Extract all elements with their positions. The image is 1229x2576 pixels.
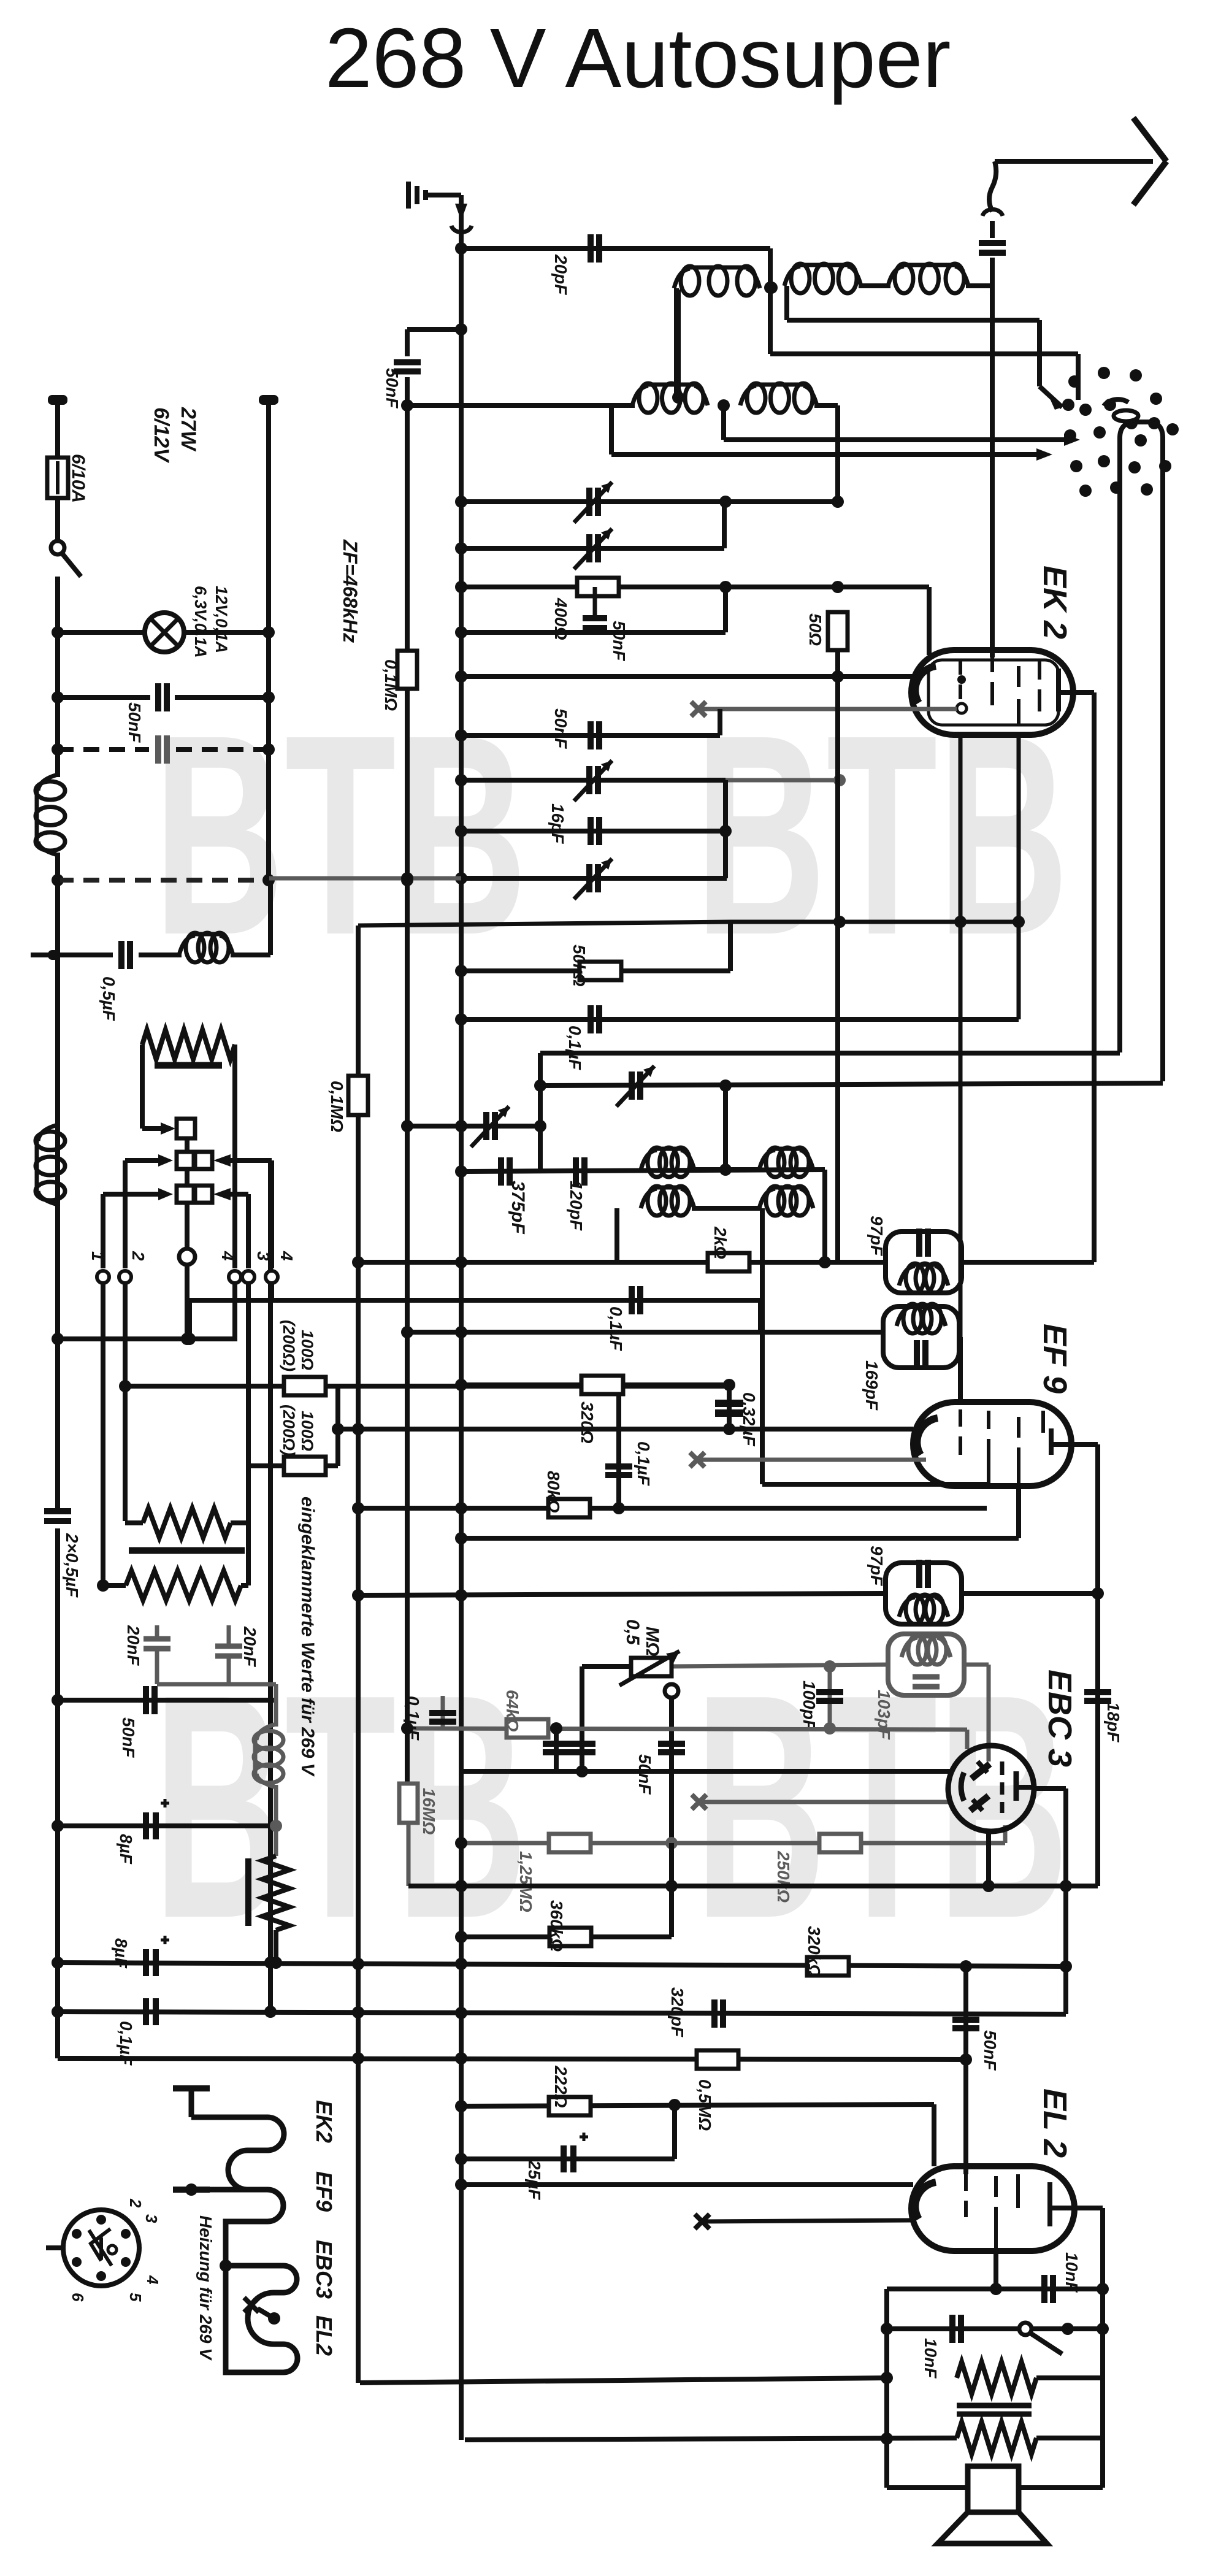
label 0,5MOhm b — [695, 2079, 714, 2131]
watermark BTB stamps — [153, 675, 1069, 1985]
x mark EL2 — [695, 2214, 710, 2229]
battery terminal + — [48, 395, 67, 405]
wire rheo2 right up — [241, 1466, 248, 1585]
x mark EBC3 — [692, 1795, 706, 1809]
arrow into EK2 grid a — [1064, 434, 1080, 446]
rail 3005 (AF grid) — [461, 1841, 1005, 1846]
svg-text:3: 3 — [254, 1251, 273, 1261]
resistor 0,5 MOhm b — [697, 2050, 738, 2069]
label 222 Ohm — [551, 2065, 570, 2108]
junction 3005/752 — [455, 1837, 467, 1849]
capacitor 50nF b — [591, 721, 599, 749]
junction 3520/752 — [455, 2153, 467, 2165]
capacitor 50nF supply — [146, 1686, 155, 1714]
junction 2888/949 — [576, 1765, 588, 1777]
heater filament EBC3 — [226, 2266, 297, 2293]
svg-text:0,1µF: 0,1µF — [607, 1306, 626, 1351]
rail 1662 — [461, 1017, 1019, 1022]
EF9 cathode arc — [917, 1418, 938, 1455]
junction 2601/584 — [352, 1589, 364, 1601]
wire contact4b down — [269, 1283, 274, 1300]
rail 3282 — [58, 2012, 1066, 2014]
svg-text:50nF: 50nF — [981, 2030, 1000, 2071]
wire lamp row right — [183, 630, 269, 635]
switch wafer box 1 — [177, 1119, 195, 1138]
rail 3562 — [461, 2182, 913, 2187]
switch wafer box 3b — [195, 1186, 212, 1203]
svg-text:100Ω: 100Ω — [298, 1411, 316, 1451]
resistor 222 Ohm — [549, 2097, 591, 2115]
heater filament EK2 — [191, 2117, 284, 2150]
antenna coil L4b — [740, 383, 817, 413]
vert 1095 b — [669, 1843, 674, 1937]
junction lineA/1432 — [401, 872, 413, 884]
vert 1798 — [1100, 2208, 1105, 2438]
junction 2818/1353 — [824, 1722, 836, 1735]
socket pin 2 — [126, 2198, 145, 2208]
rheostat down — [274, 1930, 278, 1963]
label 6,3V 0,1A — [191, 586, 210, 658]
wire wafer3 vert — [101, 1194, 105, 1268]
slider plate bar — [129, 1547, 245, 1554]
rail 1272 gray — [726, 778, 840, 783]
junction dashed row right — [262, 743, 275, 756]
EK2 cathode arc — [915, 666, 936, 703]
rail 1770 — [540, 1083, 1163, 1086]
rail 3732 — [887, 2287, 1103, 2291]
stub 20nF a up — [155, 1625, 159, 1639]
junction 1503/1372 — [833, 916, 846, 928]
vert 1183 c — [723, 1086, 728, 1171]
choke L2 (antenna filter) — [179, 933, 233, 962]
junction 3282/587 — [352, 2006, 364, 2018]
junction 3356/752 — [455, 2052, 467, 2064]
junction AVC at battery wire — [262, 874, 275, 886]
label 0,1uF d — [404, 1696, 423, 1741]
junction lamp row left — [52, 626, 64, 638]
antenna jack arc — [451, 226, 472, 232]
junction 1770 left — [534, 1079, 546, 1092]
EK2 inner electrodes — [957, 657, 1072, 725]
capacitor 16pF — [591, 817, 599, 845]
drum rheostat 2 — [126, 1571, 241, 1600]
capacitor 50nF (osc) — [583, 587, 607, 632]
svg-text:0,1MΩ: 0,1MΩ — [381, 659, 400, 711]
heater bus terminal 1 — [173, 2088, 210, 2117]
wire spine bottom — [55, 1528, 60, 2058]
junction 2058/1345 — [819, 1256, 831, 1268]
junction 3204/752 — [455, 1958, 467, 1970]
svg-text:120pF: 120pF — [567, 1181, 586, 1231]
rail 3520 — [461, 2156, 675, 2161]
EF9 anode lead right — [1071, 1442, 1098, 1447]
resistor 50 Ohm — [828, 612, 848, 650]
rail 1272 — [461, 778, 726, 783]
label 8uF a — [117, 1834, 136, 1865]
svg-text:4: 4 — [277, 1251, 296, 1261]
coil T4 — [902, 1635, 951, 1665]
loudspeaker — [938, 2466, 1047, 2543]
antenna lead stub — [990, 221, 995, 238]
svg-text:50Ω: 50Ω — [806, 613, 825, 646]
terminal (chassis tap) — [31, 950, 59, 960]
EK2 cathode oval mark — [1114, 410, 1138, 421]
label 0,32uF — [740, 1392, 759, 1447]
label contact 3 — [254, 1251, 273, 1261]
heater link stub — [258, 2309, 274, 2318]
coupling 50nF vert — [963, 1966, 968, 2058]
capacitor 0,1uF d — [429, 1713, 456, 1722]
svg-text:4: 4 — [144, 2275, 162, 2285]
svg-text:375pF: 375pF — [508, 1181, 528, 1234]
svg-text:2: 2 — [129, 1251, 148, 1261]
junction 957/1183 — [719, 581, 732, 593]
wire 383 up — [232, 1300, 237, 1339]
wire battery - lead — [266, 405, 271, 880]
svg-text:EBC 3: EBC 3 — [1041, 1669, 1078, 1767]
rail 3877 right — [1036, 2375, 1103, 2380]
junction 3075/1612 — [982, 1880, 995, 1892]
label 97pF T3 — [867, 1546, 886, 1586]
EL2 anode bottom lead — [994, 2250, 998, 2289]
rail 519 end corner — [1037, 320, 1042, 386]
EK2 osc anode stub — [1076, 396, 1081, 400]
EL2 grid into tube — [963, 2058, 968, 2174]
label 10nF b — [921, 2338, 940, 2379]
wire L6a left down — [784, 286, 789, 320]
antenna coil L4a — [632, 383, 708, 413]
wire 309 corner — [187, 1300, 192, 1339]
label 50nF osc — [610, 621, 629, 661]
junction 1031 left — [455, 626, 467, 638]
socket pin 5 — [126, 2293, 145, 2302]
arrow into wafer 2 — [158, 1154, 173, 1167]
EK2 anode vertical — [1092, 692, 1097, 1262]
label 100 Ohm upper — [298, 1330, 316, 1370]
junction 2258/1189 — [723, 1379, 735, 1391]
wire 1180 down — [721, 405, 726, 440]
svg-text:(200Ω): (200Ω) — [280, 1320, 298, 1371]
svg-text:320pF: 320pF — [668, 1987, 687, 2037]
junction coil tap — [672, 391, 684, 404]
label MOhm pot — [642, 1627, 662, 1656]
capacitor 0,1uF e — [146, 1998, 156, 2025]
resistor 100 Ohm (200 Ohm) upper — [284, 1377, 326, 1395]
X line to EL2 — [702, 2220, 911, 2221]
label 50nF b — [551, 708, 570, 749]
switch contact 1 — [97, 1271, 109, 1283]
wire spine mid — [55, 697, 60, 777]
capacitor 20nF b — [215, 1646, 242, 1684]
line A upper — [405, 377, 410, 652]
svg-text:103pF: 103pF — [875, 1690, 894, 1740]
junction 1662 left — [455, 1013, 467, 1025]
antenna horizontal — [995, 159, 1153, 164]
svg-text:320Ω: 320Ω — [578, 1401, 597, 1444]
capacitor 50nF e — [658, 1744, 685, 1752]
label 0,1uF b — [607, 1306, 626, 1351]
vert 1189 seg — [727, 1385, 732, 1429]
label 320pF — [668, 1987, 687, 2037]
capacitor 375pF — [501, 1157, 510, 1186]
wiper down — [669, 1698, 674, 1843]
label EF9 (heater) — [312, 2171, 337, 2212]
dropping rheostat — [262, 1856, 289, 1930]
rail 661 (input tuned) — [407, 403, 635, 408]
svg-text:BTB: BTB — [695, 675, 1069, 994]
junction rail2183 left — [52, 1333, 64, 1345]
wire tap up — [676, 289, 681, 397]
socket pin 3 — [142, 2214, 161, 2223]
junction 309/2183 — [183, 1333, 196, 1345]
label 50kOhm — [570, 945, 589, 987]
resistor 80 kOhm — [548, 1499, 590, 1517]
junction 3282/441 — [264, 2006, 277, 2018]
output transformer primary — [957, 2362, 1036, 2394]
line A mid — [405, 689, 410, 1728]
capacitor 2x0,5uF — [44, 1511, 71, 1521]
wire spine lower — [55, 955, 60, 1510]
wire upper 100ohm right — [326, 1384, 338, 1389]
tube EL2 envelope — [911, 2166, 1074, 2251]
svg-text:169pF: 169pF — [862, 1360, 881, 1411]
switch contact 4 — [266, 1271, 278, 1283]
wire dashed row left — [58, 747, 149, 752]
wire wafer3 feed — [103, 1192, 158, 1197]
capacitor 8uF a — [146, 1799, 169, 1839]
fuse wire through — [56, 461, 59, 494]
speaker right wire — [1019, 2485, 1103, 2490]
label contact 1 — [88, 1251, 107, 1261]
junction 3075/752 — [455, 1880, 467, 1892]
rheostat 1 left lead — [125, 1520, 143, 1525]
wire 881 down — [538, 1053, 543, 1171]
wire L8 left down — [614, 1208, 619, 1262]
junction 3282/752 — [455, 2007, 467, 2019]
junction 3797/1446 — [881, 2323, 893, 2335]
label 27W — [177, 407, 200, 452]
capacitor 10nF b — [952, 2315, 961, 2343]
junction 2977/450 — [270, 1820, 282, 1832]
rail 2977 — [58, 1823, 276, 1828]
trimmer C4 (gang) — [574, 859, 612, 899]
title 268 V Autosuper — [325, 11, 951, 105]
svg-text:20pF: 20pF — [551, 254, 570, 295]
rail 1717 — [540, 1051, 1120, 1056]
arrowhead antenna jack — [455, 204, 467, 221]
arrow into EK2 grid b — [1036, 448, 1052, 461]
line A lower — [405, 1728, 410, 1784]
oscillator coil L7b — [759, 1148, 813, 1177]
stub 907 down — [554, 1728, 559, 1771]
switch pivot circle — [179, 1249, 195, 1265]
wire 50ohm down — [835, 650, 840, 677]
svg-text:50kΩ: 50kΩ — [570, 945, 589, 987]
wire L8 mid link — [692, 1206, 762, 1211]
svg-text:80kΩ: 80kΩ — [544, 1471, 563, 1513]
wire L7 mid link — [692, 1167, 762, 1172]
svg-text:2kΩ: 2kΩ — [711, 1226, 730, 1259]
switch S1 (power) — [51, 541, 81, 577]
heater filament EL2 — [226, 2266, 297, 2372]
junction 50nF supply row — [52, 1694, 64, 1706]
capacitor 18pF — [1084, 1692, 1111, 1701]
junction 1272/1369 — [833, 774, 846, 786]
rail 20pF (405) — [461, 246, 770, 251]
svg-text:Heizung für 269 V: Heizung für 269 V — [196, 2215, 215, 2361]
wire 1183 vert — [723, 587, 728, 632]
arrow into wafer 1 — [161, 1122, 175, 1135]
rail 3877 left — [360, 2378, 887, 2383]
junction 3797/1741 — [1062, 2323, 1074, 2335]
coil T1 — [899, 1263, 948, 1293]
wire dashed row right — [176, 747, 269, 752]
wire L4b right down (to 50 Ohm line) — [835, 405, 840, 499]
svg-text:1: 1 — [88, 1251, 107, 1261]
wire wafer2 vert — [123, 1160, 128, 1268]
junction 3562/752 — [455, 2179, 467, 2191]
wire bracket vertical — [335, 1386, 340, 1466]
X line to EF9 — [697, 1458, 926, 1462]
rail 894 — [461, 546, 724, 551]
rail 3075 — [408, 1884, 1098, 1888]
rail 100-ohm (2260) — [125, 1384, 729, 1389]
pot left down — [580, 1666, 584, 1771]
wire contact3 down — [246, 1283, 251, 1466]
junction 1189/2330 — [723, 1423, 735, 1435]
capacitor (det) 907 — [543, 1744, 570, 1752]
junction 2818/907 — [550, 1722, 562, 1735]
junction 2172/752 — [455, 1326, 467, 1338]
junction 1272 left — [455, 774, 467, 786]
x mark EF9 — [690, 1452, 705, 1467]
junction 50nF row right — [262, 691, 275, 703]
EK2 cathode arc mark — [1104, 399, 1128, 406]
antenna feed down — [459, 195, 464, 2440]
wire wafer2 right to 443 — [231, 1158, 272, 1163]
tube EF9 envelope — [913, 1402, 1071, 1486]
junction heater bus 2 — [185, 2183, 197, 2196]
output transformer secondary — [957, 2422, 1036, 2454]
svg-text:50nF: 50nF — [119, 1717, 138, 1758]
EL2 inner electrodes — [966, 2174, 1074, 2250]
label 80kOhm — [544, 1471, 563, 1513]
EF9 screen stub — [1016, 1488, 1021, 1538]
coil T2 — [897, 1304, 946, 1333]
rail 1355 — [461, 829, 726, 834]
tone switch — [1019, 2323, 1062, 2354]
EBC3 anode down — [1063, 1788, 1068, 2014]
svg-text:1,25MΩ: 1,25MΩ — [516, 1851, 535, 1912]
label 0,5uF — [99, 976, 118, 1021]
EF9 top grid feed — [958, 1337, 963, 1405]
oscillator coil L8b — [759, 1186, 813, 1216]
rail 2420 (screen) — [762, 1482, 987, 1487]
label 320 Ohm — [578, 1401, 597, 1444]
wire lamp row left — [58, 630, 146, 635]
svg-text:0,1µF: 0,1µF — [117, 2021, 136, 2066]
wire 50nF row left — [58, 695, 150, 700]
junction lineA/661 — [401, 399, 413, 412]
label 8uF b — [112, 1938, 131, 1969]
junction lamp row right — [262, 626, 275, 638]
slug-tuned oscillator coil — [142, 1030, 235, 1059]
rheostat 1 right lead — [231, 1466, 248, 1523]
svg-text:50nF: 50nF — [610, 621, 629, 661]
wire 1183 up — [722, 502, 727, 548]
label 50 Ohm — [806, 613, 825, 646]
capacitor 0,1uF — [591, 1005, 599, 1033]
junction 957 left — [455, 581, 467, 593]
junction 2818/664 — [401, 1722, 413, 1735]
capacitor 8uF b — [146, 1936, 169, 1976]
vert 1183 lower — [723, 780, 728, 878]
label contact 4 — [277, 1251, 296, 1261]
wire 1758 down (to osc anode) — [1076, 354, 1081, 396]
svg-text:0,32µF: 0,32µF — [740, 1392, 759, 1447]
label 169pF T2 — [862, 1360, 881, 1411]
label 16pF — [548, 803, 567, 844]
wire 443 down — [269, 1160, 274, 1268]
capacitor (suppressor, dashed row) — [158, 735, 167, 764]
rail 537 link — [407, 327, 461, 332]
EF9 anode vertical — [1095, 1444, 1100, 1886]
label contact 2 — [129, 1251, 148, 1261]
rail 2508 — [461, 1536, 1019, 1541]
antenna jack arc 2 — [982, 209, 1003, 216]
switch wafer box 3a — [177, 1186, 194, 1203]
socket pin 4 — [144, 2275, 162, 2285]
label 20pF — [551, 254, 570, 295]
wire 1256 down — [768, 248, 773, 354]
trimmer C (osc padder) — [574, 482, 612, 523]
junction 3797/1798 — [1097, 2323, 1109, 2335]
wire L4a left down — [613, 403, 635, 408]
rail 1503 — [358, 922, 730, 926]
rail 2717 (det) — [670, 1665, 888, 1666]
switch contact 4 — [229, 1271, 241, 1283]
rail 741 (grid feed) — [611, 452, 1036, 457]
resistor 360 kOhm — [549, 1928, 591, 1946]
rail 818 — [461, 499, 838, 504]
IF transformer T3 frame — [886, 1563, 962, 1624]
rail 2183 — [58, 1336, 237, 1341]
svg-text:16pF: 16pF — [548, 803, 567, 844]
EL2 grid feed down — [932, 2104, 936, 2166]
line A bottom — [407, 1823, 411, 1886]
IF transformer T4 frame — [888, 1634, 964, 1695]
wire L6b right to ant cap — [966, 283, 992, 288]
label 0,5MOhm pot — [622, 1619, 643, 1646]
label 120pF — [567, 1181, 586, 1231]
junction 1355 left — [455, 825, 467, 837]
label 0,1MOhm ant — [381, 659, 400, 711]
tube EK2 envelope — [911, 650, 1073, 735]
capacitor 320pF — [714, 1999, 723, 2028]
svg-text:6,3V,0,1A: 6,3V,0,1A — [191, 586, 210, 658]
rail 3204 — [58, 1963, 1066, 1966]
wire L4b link — [814, 403, 838, 408]
wire 1191 up — [728, 922, 733, 971]
choke to rheostat — [274, 1785, 278, 1856]
rail 1583 — [461, 968, 730, 973]
svg-text:64kΩ: 64kΩ — [503, 1690, 522, 1732]
svg-text:16MΩ: 16MΩ — [419, 1788, 438, 1834]
wire ant cap stub down — [990, 258, 995, 286]
label 0,1uF c — [634, 1441, 653, 1486]
label 400 Ohm — [551, 597, 570, 640]
label 20nF a — [124, 1625, 143, 1666]
